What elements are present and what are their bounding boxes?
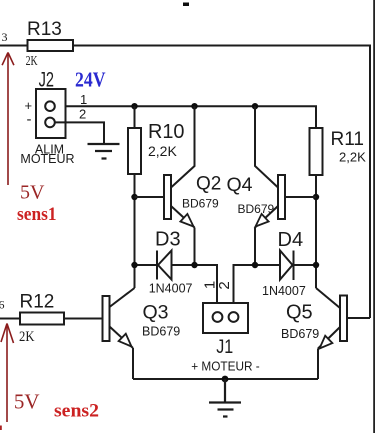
wire D3 cathode to left column [135,264,158,266]
svg-text:R13: R13 [27,19,62,40]
resistor R11 [310,128,323,175]
connector J2 [36,89,66,138]
svg-text:MOTEUR: MOTEUR [20,152,74,166]
node Q4 base tap [313,194,319,200]
svg-text:2K: 2K [19,329,35,345]
diode D4 [280,251,294,281]
svg-text:sens1: sens1 [17,205,57,225]
node motor right [252,262,258,268]
node D4 right [313,262,319,268]
svg-text:J2: J2 [39,68,54,91]
node D3 left [131,262,137,268]
svg-text:BD679: BD679 [238,202,275,216]
svg-text:Q2: Q2 [196,174,221,195]
transistor Q5 [316,288,347,379]
red arrow sens2 [1,324,14,423]
svg-text:2: 2 [216,281,233,289]
svg-text:24V: 24V [75,68,106,92]
svg-text:5V: 5V [14,389,40,413]
node Q2 base tap [131,194,137,200]
svg-text:+ MOTEUR -: + MOTEUR - [191,358,260,373]
svg-text:1N4007: 1N4007 [262,284,306,298]
svg-text:6: 6 [0,298,5,312]
wire Q5 base [347,317,370,319]
resistor R12 [20,313,64,325]
svg-text:Q5: Q5 [286,302,313,324]
svg-text:BD679: BD679 [182,197,219,211]
svg-text:3: 3 [2,30,8,44]
svg-text:J1: J1 [216,336,233,358]
wire Q3 base [64,318,103,320]
svg-text:Q4: Q4 [227,174,253,196]
transistor Q3 [103,288,135,379]
svg-text:D4: D4 [278,229,304,251]
node Q4 collector top [252,103,258,109]
svg-text:BD679: BD679 [281,327,319,341]
svg-text:R12: R12 [20,292,55,313]
wire Q4 base [285,196,316,198]
transistor Q4 [255,106,285,265]
wire Q2 base [135,196,165,198]
transistor Q2 [164,106,195,265]
svg-text:2: 2 [79,107,86,122]
svg-text:5V: 5V [20,182,45,204]
wire R12 left [0,318,20,320]
svg-text:BD679: BD679 [142,325,180,339]
node R10 top [131,103,137,109]
svg-text:R11: R11 [331,128,365,150]
wire 24V net from J2 pin1 to R11 top [55,106,316,128]
svg-text:2,2K: 2,2K [148,143,177,159]
wire J2 pin2 to ground [55,122,104,143]
svg-text:-: - [27,111,32,128]
svg-text:sens2: sens2 [54,401,99,422]
wire right edge crop line [373,0,375,433]
wire D4 anode to J1 pin2 [234,265,281,312]
svg-text:R10: R10 [148,120,185,143]
resistor R13 [28,40,74,51]
svg-text:1: 1 [80,92,87,107]
diode D3 [157,251,172,280]
svg-text:D3: D3 [155,228,181,250]
ground J2 [88,144,120,159]
wire R10 bottom to D3 node [134,174,136,288]
wire D4 cathode to right column [294,264,317,266]
wire R13 to right rail down to Q5 base [73,46,370,319]
wire bottom rail [133,378,318,380]
red arrow sens1 [2,53,14,186]
svg-text:1N4007: 1N4007 [149,281,193,295]
wire D3 anode to J1 pin1 [172,265,218,312]
wire R11 bottom to D4 node [315,175,317,288]
connector J1 [203,303,248,333]
top crop dash [183,3,189,7]
wire pin3 to R13 [0,45,28,47]
node Q2 collector top [191,103,197,109]
svg-text:Q3: Q3 [143,302,169,324]
red bottom-left dash [0,426,2,431]
resistor R10 [128,128,141,174]
svg-text:2,2K: 2,2K [339,150,366,165]
node motor left [191,262,197,268]
ground motor [209,379,241,417]
wire R10 top [134,106,136,128]
svg-text:2K: 2K [26,53,38,68]
node ground junction [222,376,229,383]
